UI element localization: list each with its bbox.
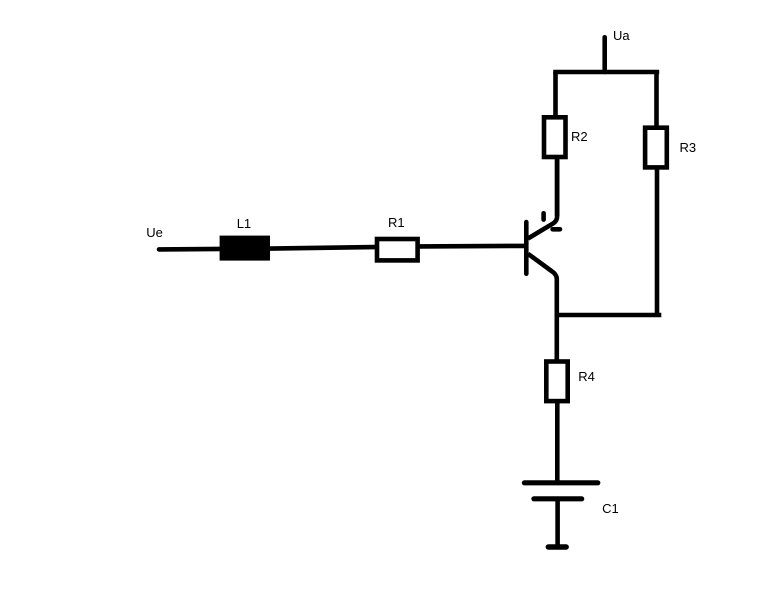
wire: input base wire from Ue to transistor [159,246,526,250]
transistor Q1 arrow horizontal stroke [553,227,560,232]
transistor Q1 emitter diagonal and wire down to R4 [528,254,557,360]
node label Ue [146,226,163,239]
resistor R4 [546,362,567,402]
wire: R3 down to emitter junction [655,170,660,315]
wire: right drop from rail to R3 [654,72,659,127]
transistor Q1 base bar [524,222,529,274]
wire: left drop from rail to R2 [553,72,558,117]
label L1 [237,217,251,230]
label C1 [602,502,619,515]
inductor L1 (solid block) [220,236,270,261]
wire: top horizontal rail [553,70,659,75]
wire: C1 to ground [555,500,560,545]
resistor R2 [544,117,566,157]
capacitor C1 bottom plate [534,496,582,501]
label R2 [571,130,588,143]
label R4 [578,370,595,383]
node label Ua [613,29,630,42]
wire: Ua supply stub [602,37,607,72]
transistor Q1 collector diagonal [528,159,557,239]
wire: R4 to capacitor C1 [555,403,560,483]
label R1 [388,216,405,229]
resistor R3 [645,128,667,168]
transistor Q1 arrow vertical stroke [541,213,546,219]
wire: R2 to transistor collector [555,159,560,216]
capacitor C1 top plate [524,480,597,485]
label R3 [680,141,697,154]
ground terminal bar [548,544,566,549]
resistor R1 [377,239,418,260]
wire: bottom horizontal from emitter node to R3 branch [555,313,662,318]
